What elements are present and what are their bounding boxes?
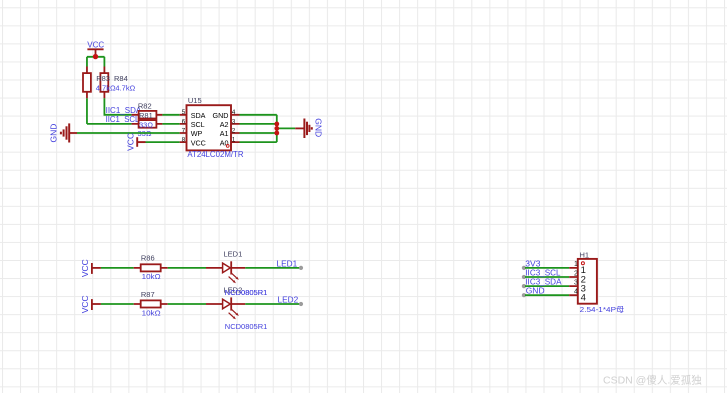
wire GND [525,294,569,296]
svg-text:WP: WP [191,129,203,138]
wire R84 bottom to SDA [103,92,105,99]
led LED2 [206,297,245,319]
svg-text:AT24LC02M/TR: AT24LC02M/TR [187,150,243,159]
svg-text:LED1: LED1 [277,258,298,268]
wire SDA to U15 [162,114,179,116]
wire WP row [77,132,180,134]
power VCC top [87,40,104,57]
svg-text:1: 1 [574,261,578,268]
svg-text:R83: R83 [96,74,110,83]
wire VCC rail [87,56,105,58]
resistor R83 [83,67,91,92]
wire R86 to LED1 [168,267,206,269]
ground GND left [48,123,77,142]
junction dot middle [274,126,279,131]
svg-text:LED1: LED1 [224,250,243,259]
svg-text:VCC: VCC [80,295,90,313]
svg-text:R82: R82 [138,101,152,110]
svg-text:A1: A1 [220,129,229,138]
svg-text:SDA: SDA [191,111,206,120]
svg-text:4.7kΩ: 4.7kΩ [115,84,135,93]
svg-text:7: 7 [182,127,186,134]
svg-text:10kΩ: 10kΩ [142,272,161,281]
svg-text:U15: U15 [188,96,202,105]
svg-text:LED2: LED2 [278,295,299,305]
wire SCL row [87,123,132,125]
wire pin2 [240,132,277,134]
svg-text:GND: GND [213,111,229,120]
svg-text:R87: R87 [141,290,155,299]
junction dot pin3 [274,122,279,127]
node end IIC3_SDA [522,284,526,288]
svg-text:4.7kΩ: 4.7kΩ [96,84,116,93]
svg-text:GND: GND [313,118,323,137]
wire VCC row [146,141,180,143]
svg-text:4: 4 [581,293,586,304]
svg-text:5: 5 [182,109,186,116]
svg-text:3: 3 [574,279,578,286]
resistor R86 [134,264,168,271]
wire LED1 out [245,267,299,269]
svg-text:SCL: SCL [191,120,205,129]
svg-text:3: 3 [232,118,236,125]
svg-text:8: 8 [182,137,186,144]
svg-text:R81: R81 [139,111,153,120]
svg-text:R86: R86 [141,254,155,263]
svg-text:VCC: VCC [191,138,206,147]
svg-text:A0: A0 [220,138,229,147]
svg-text:4: 4 [232,109,236,116]
power VCC pin8 [125,133,145,151]
wire LED2 out [245,303,299,305]
svg-text:4: 4 [574,289,578,296]
node end 3V3 [522,266,526,270]
svg-text:10kΩ: 10kΩ [142,308,161,317]
svg-text:R84: R84 [114,74,128,83]
wire pin1 [240,141,277,143]
wire IIC3_SCL [525,276,569,278]
svg-text:CSDN @傻人.爱孤独: CSDN @傻人.爱孤独 [603,374,702,387]
svg-text:VCC: VCC [87,40,104,49]
junction dot [93,54,98,59]
svg-text:NCD0805R1: NCD0805R1 [225,322,268,331]
power VCC LED2 [80,295,101,313]
svg-text:GND: GND [48,124,58,143]
node end GND [522,293,526,297]
svg-text:2.54-1*4P母: 2.54-1*4P母 [580,305,625,314]
wire R83 bottom to SCL [86,92,88,99]
svg-text:VCC: VCC [125,133,135,151]
power VCC LED1 [80,259,101,277]
led LED1 [206,261,245,283]
wire trunk [276,115,278,142]
node end LED2 [299,302,303,306]
svg-text:H1: H1 [580,250,590,259]
svg-text:A2: A2 [220,120,229,129]
svg-text:VCC: VCC [80,259,90,277]
wire R83 top [86,57,88,67]
svg-text:2: 2 [232,127,236,134]
wire pin3 [240,123,277,125]
resistor R82 [132,111,163,119]
ground GND right [295,118,323,138]
resistor R87 [134,300,168,307]
wire VCC to R87 [101,303,134,305]
svg-text:GND: GND [526,286,545,296]
wire pin4 [240,114,277,116]
wire IIC3_SDA [525,285,569,287]
connector H1 [569,259,597,304]
svg-text:2: 2 [574,270,578,277]
svg-text:6: 6 [182,118,186,125]
op IC U15 [180,105,240,150]
wire R87 to LED2 [168,303,206,305]
svg-text:NCD0805R1: NCD0805R1 [225,288,268,297]
svg-text:1: 1 [232,137,236,144]
wire VCC to R86 [101,267,134,269]
wire SCL to U15 [162,123,179,125]
wire R84 top [103,57,105,67]
wire 3V3 [525,267,569,269]
junction dot pin2 [274,131,279,136]
resistor R81 [132,120,163,128]
node end IIC3_SCL [522,275,526,279]
wire to ground [277,127,295,129]
resistor R84 [100,67,108,92]
node end LED1 [299,266,303,270]
